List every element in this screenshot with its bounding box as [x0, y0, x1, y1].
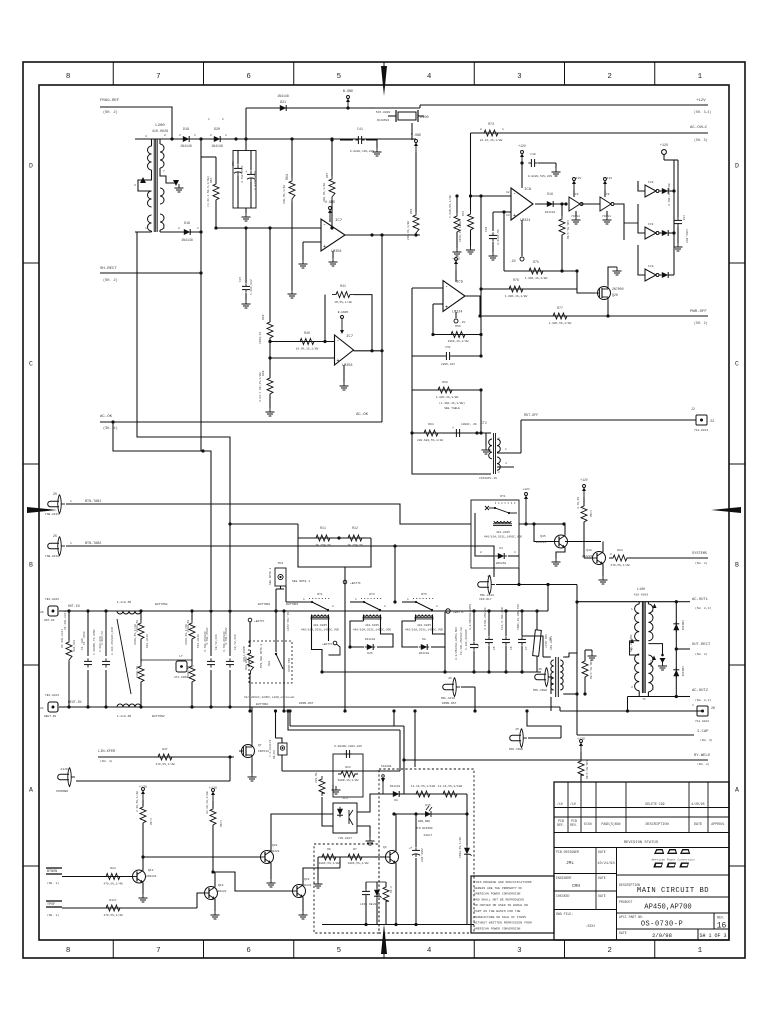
- svg-text:+BATTF: +BATTF: [254, 620, 265, 623]
- svg-text:+12V: +12V: [522, 488, 529, 491]
- svg-text:D4: D4: [499, 547, 503, 550]
- svg-text:410-0035: 410-0035: [417, 624, 431, 627]
- svg-text:R6: R6: [327, 848, 331, 851]
- svg-text:440/10A,C031,1450C,VDE: 440/10A,C031,1450C,VDE: [405, 628, 443, 632]
- svg-text:XFORMER: XFORMER: [56, 790, 68, 793]
- svg-text:0699,5%,1/4W: 0699,5%,1/4W: [458, 837, 462, 858]
- svg-text:1.00K,1%,1/8W: 1.00K,1%,1/8W: [525, 276, 548, 280]
- svg-text:AC-OUT1: AC-OUT1: [692, 598, 709, 602]
- svg-text:390,5%,1/4W: 390,5%,1/4W: [322, 183, 326, 202]
- svg-text:R76: R76: [513, 278, 519, 282]
- svg-text:Q3: Q3: [383, 846, 387, 849]
- svg-text:4.7NF,250V: 4.7NF,250V: [206, 627, 209, 645]
- svg-text:RY3: RY3: [369, 593, 375, 596]
- svg-text:THIS DRAWING AND SPECIFICATION: THIS DRAWING AND SPECIFICATIONS: [474, 880, 532, 884]
- svg-text:(SH. 2): (SH. 2): [103, 278, 118, 283]
- svg-text:HEREIN ARE THE PROPERTY OF: HEREIN ARE THE PROPERTY OF: [474, 886, 522, 890]
- svg-text:26: 26: [711, 707, 715, 711]
- svg-text:-: -: [323, 222, 326, 228]
- svg-text:6: 6: [246, 947, 251, 955]
- svg-text:3: 3: [134, 184, 136, 187]
- svg-text:CS150PL-1S: CS150PL-1S: [479, 477, 497, 480]
- svg-text:24JO: 24JO: [60, 768, 67, 771]
- svg-text:A: A: [29, 787, 33, 794]
- svg-text:REVISION STATUS: REVISION STATUS: [624, 841, 659, 845]
- svg-text:TAB-0F20: TAB-0F20: [45, 513, 59, 516]
- svg-text:BUTTON2: BUTTON2: [152, 715, 165, 718]
- svg-text:3,3/250VAC,GPO3: 3,3/250VAC,GPO3: [468, 604, 472, 630]
- svg-text:+12V: +12V: [696, 99, 706, 103]
- svg-text:4: 4: [652, 688, 654, 691]
- svg-text:CMH: CMH: [572, 883, 580, 889]
- svg-text:D20: D20: [214, 128, 220, 132]
- svg-text:D: D: [29, 163, 33, 170]
- svg-text:680R,1%,1/8W: 680R,1%,1/8W: [338, 778, 359, 782]
- svg-text:Q45: Q45: [540, 535, 546, 538]
- svg-text:(SH. 2): (SH. 2): [697, 762, 710, 766]
- svg-text:2.2K: 2.2K: [389, 886, 392, 893]
- svg-text:1: 1: [70, 500, 72, 503]
- svg-text:C41: C41: [357, 127, 363, 131]
- svg-text:MOV-XFER: MOV-XFER: [533, 689, 547, 692]
- svg-text:-9V: -9V: [510, 259, 516, 263]
- svg-text:+: +: [452, 427, 454, 431]
- svg-text:DATE: DATE: [598, 876, 606, 880]
- svg-text:0.022U,50V,20%: 0.022U,50V,20%: [528, 175, 553, 178]
- svg-text:OUT-RECT: OUT-RECT: [692, 643, 711, 647]
- svg-text:R12: R12: [352, 526, 358, 530]
- svg-text:C10: C10: [530, 153, 536, 156]
- svg-text:MAIN CIRCUIT BD: MAIN CIRCUIT BD: [637, 887, 709, 895]
- svg-text:7: 7: [156, 73, 161, 81]
- svg-text:SEE NOTE 2: SEE NOTE 2: [269, 567, 272, 585]
- svg-text:3.3/250VAC,GPO3,SD2: 3.3/250VAC,GPO3,SD2: [454, 627, 458, 660]
- svg-text:R64: R64: [428, 423, 434, 426]
- svg-text:NEUT-IN: NEUT-IN: [44, 715, 56, 718]
- svg-text:1: 1: [145, 227, 147, 230]
- svg-text:4: 4: [427, 947, 432, 955]
- svg-text:LINE DELS: LINE DELS: [360, 903, 376, 906]
- svg-text:BUTTON3: BUTTON3: [286, 603, 298, 606]
- svg-text:C44: C44: [682, 215, 685, 220]
- svg-text:SEE NOTE 1: SEE NOTE 1: [292, 580, 310, 583]
- svg-text:2: 2: [436, 605, 438, 608]
- svg-text:(SH. 2,3): (SH. 2,3): [695, 698, 711, 702]
- svg-text:C9,Y2,20%: C9,Y2,20%: [234, 634, 237, 650]
- svg-text:2N4148: 2N4148: [419, 652, 430, 655]
- svg-text:100K,5%,1/8W: 100K,5%,1/8W: [319, 861, 340, 865]
- svg-text:1: 1: [692, 704, 694, 707]
- svg-text:+12V: +12V: [209, 787, 218, 791]
- svg-text:1-2x0.5R: 1-2x0.5R: [117, 601, 132, 604]
- svg-text:+12V: +12V: [518, 144, 526, 148]
- svg-text:+BATTF: +BATTF: [350, 582, 361, 585]
- svg-text:R75: R75: [533, 260, 539, 264]
- svg-text:7.0-2x0F73: 7.0-2x0F73: [269, 739, 272, 757]
- svg-text:2.2K,5%,1/4W: 2.2K,5%,1/4W: [135, 791, 139, 812]
- svg-text:150K,1%: 150K,1%: [259, 332, 262, 344]
- svg-text:74C14: 74C14: [602, 215, 611, 218]
- svg-text:4/20/95: 4/20/95: [691, 802, 704, 806]
- svg-text:R84: R84: [617, 549, 623, 552]
- svg-text:IC7: IC7: [346, 335, 354, 339]
- svg-text:L100: L100: [637, 588, 645, 592]
- svg-text:C6: C6: [510, 646, 513, 650]
- svg-text:HOT-IN: HOT-IN: [68, 604, 80, 608]
- svg-text:+: +: [513, 213, 516, 219]
- svg-text:1/8W: 1/8W: [589, 510, 593, 517]
- svg-text:440/10A,C031,1450C,VDE: 440/10A,C031,1450C,VDE: [301, 628, 339, 632]
- svg-text:15NF,20,VDE,Y2K: 15NF,20,VDE,Y2K: [517, 604, 520, 630]
- svg-text:V-GND: V-GND: [325, 201, 335, 205]
- svg-text:1N5404: 1N5404: [681, 620, 684, 631]
- svg-text:DPRN-RST: DPRN-RST: [299, 702, 314, 705]
- svg-text:7: 7: [163, 170, 165, 173]
- svg-text:3: 3: [498, 437, 500, 440]
- svg-text:410-0035: 410-0035: [313, 624, 327, 627]
- svg-text:1N5404: 1N5404: [681, 666, 684, 677]
- svg-text:+12V: +12V: [580, 478, 588, 482]
- svg-text:B-GND5: B-GND5: [338, 311, 349, 314]
- svg-text:470,5%,1/4W: 470,5%,1/4W: [155, 762, 174, 766]
- svg-text:2N2222: 2N2222: [216, 890, 227, 893]
- svg-text:(SH. 2): (SH. 2): [695, 652, 708, 656]
- svg-text:2N6268: 2N6268: [496, 562, 507, 565]
- svg-text:ECO#: ECO#: [584, 822, 592, 826]
- svg-text:IC9: IC9: [648, 181, 654, 184]
- svg-text:220,5%: 220,5%: [315, 772, 318, 783]
- svg-text:1N4148: 1N4148: [180, 144, 192, 148]
- svg-text:4.7UF,250V: 4.7UF,250V: [241, 165, 244, 183]
- svg-text:Q48: Q48: [586, 549, 592, 552]
- svg-text:J2: J2: [691, 407, 695, 411]
- svg-text:30.0K,1%,1/8W: 30.0K,1%,1/8W: [205, 791, 209, 814]
- svg-text:+12V: +12V: [605, 177, 612, 180]
- svg-text:2K,25W,5%: 2K,25W,5%: [347, 544, 363, 547]
- svg-text:2: 2: [480, 551, 482, 554]
- svg-text:LM324: LM324: [452, 311, 463, 315]
- svg-text:Q19: Q19: [218, 884, 224, 887]
- svg-text:PWR-OFF: PWR-OFF: [690, 310, 707, 314]
- svg-text:+12V: +12V: [660, 144, 669, 148]
- svg-text:D16: D16: [547, 192, 553, 196]
- svg-text:BUTTON2: BUTTON2: [256, 703, 268, 706]
- svg-text:PCB DESIGNER: PCB DESIGNER: [556, 850, 579, 854]
- svg-text:RY1: RY1: [500, 495, 506, 498]
- svg-text:AP450,AP700: AP450,AP700: [644, 904, 691, 912]
- svg-text:RST-OFF: RST-OFF: [524, 414, 538, 418]
- svg-text:26: 26: [40, 611, 44, 614]
- svg-text:IRF513: IRF513: [258, 750, 269, 753]
- svg-text:Q7: Q7: [258, 744, 262, 747]
- svg-text:+12V: +12V: [452, 257, 460, 261]
- svg-text:RY1: RY1: [317, 593, 323, 596]
- svg-text:1N4148: 1N4148: [365, 638, 376, 641]
- svg-text:(SH. 2): (SH. 2): [694, 321, 707, 325]
- svg-text:/10: /10: [557, 802, 563, 806]
- svg-text:DATE: DATE: [619, 931, 627, 935]
- svg-text:FAULT: FAULT: [424, 834, 433, 837]
- svg-text:2K,25W,5%: 2K,25W,5%: [315, 544, 331, 547]
- svg-text:B-GND: B-GND: [343, 90, 353, 94]
- svg-text:REV.: REV.: [717, 916, 725, 920]
- svg-text:+12V: +12V: [577, 737, 585, 741]
- svg-text:BTN-TAB2: BTN-TAB2: [85, 542, 101, 546]
- svg-text:1N4148: 1N4148: [211, 144, 223, 148]
- svg-text:R77: R77: [557, 306, 563, 310]
- svg-text:1M,5%,1/4W: 1M,5%,1/4W: [334, 300, 352, 304]
- svg-text:D18: D18: [184, 222, 190, 226]
- svg-text:MV3,SEE NOTE 3: MV3,SEE NOTE 3: [260, 643, 263, 668]
- svg-text:2400: 2400: [420, 116, 429, 120]
- svg-text:3: 3: [631, 686, 633, 689]
- svg-text:+12V: +12V: [139, 786, 148, 790]
- svg-text:10UF,35V: 10UF,35V: [685, 229, 688, 243]
- svg-text:IC7: IC7: [335, 219, 343, 223]
- svg-text:ENGINEER: ENGINEER: [556, 876, 571, 880]
- svg-text:C8,Y2,20%: C8,Y2,20%: [215, 634, 218, 650]
- svg-text:730-0017: 730-0017: [338, 837, 352, 840]
- svg-text:(SH. 2): (SH. 2): [47, 881, 59, 885]
- svg-text:2N2222: 2N2222: [146, 875, 157, 878]
- svg-text:MDL-0F10: MDL-0F10: [441, 697, 455, 700]
- svg-text:200K,5%: 200K,5%: [136, 620, 139, 632]
- svg-text:220P,10V: 220P,10V: [441, 363, 455, 366]
- svg-text:25: 25: [448, 677, 452, 680]
- svg-text:C30: C30: [232, 161, 235, 166]
- svg-text:(SH. 3,4): (SH. 3,4): [694, 110, 711, 114]
- svg-text:510099: 510099: [381, 765, 392, 768]
- svg-text:IC5: IC5: [456, 281, 464, 285]
- svg-text:(SH. 2,3): (SH. 2,3): [695, 606, 711, 610]
- svg-text:PAGE(S)NO#: PAGE(S)NO#: [601, 822, 620, 826]
- svg-text:25: 25: [515, 728, 519, 731]
- svg-text:24: 24: [40, 707, 44, 710]
- svg-text:1N4148: 1N4148: [277, 94, 289, 98]
- svg-text:1: 1: [652, 610, 654, 613]
- svg-text:1: 1: [303, 598, 305, 601]
- svg-text:(SH. 4): (SH. 4): [103, 426, 118, 431]
- svg-text:410-0083: 410-0083: [634, 594, 649, 597]
- svg-text:+: +: [337, 358, 340, 364]
- svg-text:1.00K,5%,1/4W: 1.00K,5%,1/4W: [549, 321, 572, 325]
- svg-text:D21: D21: [280, 101, 286, 105]
- svg-text:CHECKED: CHECKED: [556, 894, 569, 898]
- svg-text:(SH. 3): (SH. 3): [700, 738, 713, 742]
- svg-text:R11: R11: [320, 526, 326, 530]
- svg-text:20K,1%,1/8W: 20K,1%,1/8W: [406, 221, 410, 240]
- svg-text:470,5%,1/4W: 470,5%,1/4W: [610, 563, 629, 567]
- svg-text:R41: R41: [340, 284, 346, 288]
- svg-text:DWG FILE:: DWG FILE:: [556, 912, 573, 916]
- svg-text:267K,1%,1/8W: 267K,1%,1/8W: [458, 221, 462, 242]
- svg-text:2N7000: 2N7000: [612, 287, 624, 291]
- svg-text:0.47UF,250V: 0.47UF,250V: [254, 171, 257, 190]
- svg-text:-: -: [337, 338, 340, 344]
- svg-text:+BATTF: +BATTF: [322, 643, 333, 646]
- svg-text:T1: T1: [642, 698, 646, 701]
- svg-text:R23: R23: [345, 766, 350, 769]
- svg-text:Q32: Q32: [272, 844, 278, 847]
- svg-text:MOV-XFER: MOV-XFER: [509, 748, 523, 751]
- svg-text:D19: D19: [183, 128, 189, 132]
- svg-text:DELETE C99: DELETE C99: [645, 802, 664, 806]
- svg-text:8: 8: [66, 947, 71, 955]
- svg-text:DATE: DATE: [598, 850, 606, 854]
- svg-text:B: B: [735, 562, 739, 569]
- svg-text:1.00M,5%,1/4W: 1.00M,5%,1/4W: [448, 195, 452, 218]
- svg-text:+: +: [445, 305, 448, 311]
- svg-text:200K,5%: 200K,5%: [136, 666, 139, 678]
- svg-text:4: 4: [427, 73, 432, 81]
- svg-text:TB1-0013: TB1-0013: [45, 694, 59, 697]
- svg-text:R67: R67: [326, 172, 329, 178]
- svg-text:D: D: [735, 163, 739, 170]
- svg-text:5: 5: [337, 947, 342, 955]
- svg-text:C37: C37: [239, 277, 242, 282]
- svg-text:C: C: [29, 361, 33, 368]
- svg-text:R65: R65: [210, 177, 213, 183]
- svg-text:1: 1: [631, 608, 633, 611]
- svg-text:L200: L200: [155, 124, 165, 128]
- svg-text:AND SHALL NOT BE REPRODUCED: AND SHALL NOT BE REPRODUCED: [474, 897, 524, 901]
- svg-text:SH-RECT: SH-RECT: [100, 267, 117, 271]
- svg-text:100K,5%,1/8W: 100K,5%,1/8W: [348, 861, 369, 865]
- svg-text:A: A: [735, 787, 739, 794]
- svg-text:DESCRIPTION: DESCRIPTION: [645, 823, 668, 827]
- svg-text:C1 .47UF: C1 .47UF: [83, 631, 86, 645]
- svg-text:-: -: [445, 284, 448, 290]
- svg-text:GRN,RED: GRN,RED: [418, 820, 430, 823]
- svg-text:5: 5: [163, 227, 165, 230]
- svg-text:402,10%: 402,10%: [73, 640, 76, 652]
- svg-text:C: C: [735, 361, 739, 368]
- svg-text:360-0061: 360-0061: [550, 636, 553, 650]
- svg-text:2: 2: [480, 128, 482, 131]
- svg-text:SYSTEM5: SYSTEM5: [692, 552, 707, 556]
- svg-text:1: 1: [355, 598, 357, 601]
- svg-text:4.7K,5%: 4.7K,5%: [577, 497, 580, 509]
- svg-text:SH 1 OF 3: SH 1 OF 3: [699, 933, 726, 939]
- svg-text:DATE: DATE: [694, 823, 702, 827]
- svg-text:8: 8: [66, 73, 71, 81]
- svg-text:471-0068: 471-0068: [174, 676, 188, 679]
- svg-text:3,300P,5%: 3,300P,5%: [497, 229, 500, 245]
- svg-text:Q33: Q33: [304, 878, 310, 881]
- svg-text:AC-OK: AC-OK: [100, 415, 113, 419]
- svg-text:2: 2: [332, 605, 334, 608]
- svg-text:LT: LT: [179, 655, 183, 658]
- svg-text:I-CAP: I-CAP: [697, 730, 709, 734]
- svg-text:470,5%,1/4W: 470,5%,1/4W: [103, 882, 122, 886]
- svg-text:4: 4: [505, 462, 507, 465]
- svg-text:440/10A,C031,1450C,VDE: 440/10A,C031,1450C,VDE: [353, 628, 391, 632]
- svg-text:(SH. 4): (SH. 4): [100, 759, 113, 763]
- svg-text:CT2: CT2: [481, 421, 487, 425]
- svg-text:DPRN-RST: DPRN-RST: [442, 702, 457, 705]
- svg-text:BUTTON2: BUTTON2: [155, 603, 168, 606]
- svg-text:3: 3: [517, 73, 522, 81]
- svg-text:R39: R39: [262, 314, 265, 320]
- svg-text:R7: R7: [353, 848, 357, 851]
- svg-text:MANUFACTURE OR SALE OF ITEMS: MANUFACTURE OR SALE OF ITEMS: [474, 915, 526, 919]
- svg-text:430-0017: 430-0017: [544, 634, 547, 648]
- svg-text:2: 2: [607, 947, 612, 955]
- svg-text:5: 5: [337, 73, 342, 81]
- svg-text:712-0013: 712-0013: [694, 429, 708, 432]
- svg-text:(1.40K,1%,1/8W): (1.40K,1%,1/8W): [439, 401, 465, 405]
- svg-text:RY-WELD: RY-WELD: [694, 754, 711, 758]
- svg-text:R66: R66: [410, 208, 413, 214]
- svg-text:1N4148: 1N4148: [390, 785, 401, 788]
- svg-text:(SH. 2): (SH. 2): [103, 110, 118, 115]
- svg-text:74C14: 74C14: [571, 215, 580, 218]
- svg-text:0.1UF,250VAC,X2R: 0.1UF,250VAC,X2R: [111, 627, 114, 655]
- svg-text:OS-0730-P: OS-0730-P: [641, 921, 683, 929]
- svg-text:22.1K,1%,1/8W: 22.1K,1%,1/8W: [480, 138, 503, 142]
- svg-text:C7A,4.7NF,X1R: C7A,4.7NF,X1R: [501, 607, 504, 630]
- svg-text:1.2KVDC,Y2,47NF: 1.2KVDC,Y2,47NF: [93, 629, 96, 655]
- svg-text:R73: R73: [488, 122, 494, 126]
- svg-text:510-0019: 510-0019: [197, 634, 200, 648]
- svg-text:25: 25: [53, 535, 57, 539]
- svg-text:410-0035: 410-0035: [496, 531, 510, 534]
- svg-text:R47: R47: [162, 748, 168, 751]
- svg-text:FRAG-REF: FRAG-REF: [100, 99, 120, 103]
- svg-text:IC9: IC9: [648, 223, 654, 226]
- svg-text:1: 1: [197, 227, 199, 230]
- svg-text:1: 1: [225, 134, 227, 137]
- svg-text:D15: D15: [425, 804, 430, 807]
- svg-text:12: 12: [506, 191, 510, 194]
- svg-text:APCC PART NO.: APCC PART NO.: [619, 915, 644, 919]
- svg-text:V-GND: V-GND: [411, 134, 421, 138]
- svg-text:25: 25: [487, 575, 491, 578]
- svg-text:(SH. 2): (SH. 2): [47, 913, 59, 917]
- svg-text:1: 1: [698, 947, 703, 955]
- svg-text:XA/120VAC,12VDC,L10W_enclosde: XA/120VAC,12VDC,L10W_enclosde: [244, 695, 295, 699]
- svg-text:AMERICAN POWER CONVERSION: AMERICAN POWER CONVERSION: [474, 892, 521, 896]
- svg-text:1: 1: [407, 598, 409, 601]
- svg-text:(0.40-1.5K,5,1/4W): (0.40-1.5K,5,1/4W): [206, 176, 210, 207]
- svg-text:Q26: Q26: [612, 293, 618, 297]
- svg-text:WITHOUT WRITTEN PERMISSION FRO: WITHOUT WRITTEN PERMISSION FROM: [474, 921, 532, 925]
- svg-text:DE-M3: DE-M3: [273, 750, 276, 759]
- svg-text:13: 13: [506, 214, 510, 217]
- svg-text:440/10A,C031,1450C,VDE: 440/10A,C031,1450C,VDE: [484, 535, 522, 539]
- svg-text:2: 2: [498, 471, 500, 474]
- svg-text:HOT-IN: HOT-IN: [44, 619, 55, 622]
- svg-text:100K,1%,1/4W: 100K,1%,1/4W: [448, 339, 469, 343]
- svg-text:R70: R70: [462, 211, 465, 216]
- svg-text:R117: R117: [109, 899, 116, 902]
- svg-text:R40: R40: [304, 331, 310, 335]
- svg-text:PART AS THE BASIS FOR THE: PART AS THE BASIS FOR THE: [474, 909, 521, 913]
- svg-text:K1,730-0037: K1,730-0037: [286, 612, 289, 631]
- svg-text:.SCH: .SCH: [585, 925, 595, 929]
- svg-text:Q13: Q13: [148, 869, 154, 872]
- svg-text:2: 2: [179, 134, 181, 137]
- svg-text:2: 2: [384, 605, 386, 608]
- svg-text:D8: D8: [422, 638, 426, 641]
- svg-text:10K,5%,1/4W: 10K,5%,1/4W: [589, 660, 593, 679]
- svg-text:22UF,35V: 22UF,35V: [420, 848, 423, 862]
- svg-text:DE1-0026: DE1-0026: [287, 658, 290, 672]
- svg-text:20K,5%,1/4W: 20K,5%,1/4W: [282, 185, 286, 204]
- svg-text:25: 25: [53, 493, 57, 497]
- svg-text:4.47UF,250VAC: 4.47UF,250VAC: [484, 607, 487, 630]
- svg-text:-9V: -9V: [460, 321, 466, 324]
